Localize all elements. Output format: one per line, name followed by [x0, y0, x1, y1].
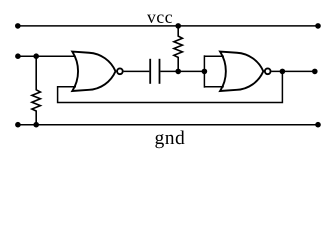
wire: U2 upper input stub — [204, 55, 223, 57]
vcc rail — [18, 25, 318, 27]
NOR gate U1 output bubble — [117, 68, 123, 74]
junction: input wire to R1 — [33, 53, 39, 59]
gnd label — [155, 130, 184, 148]
NOR gate U2 output bubble — [265, 68, 271, 74]
node: output right terminal — [312, 69, 318, 75]
NOR gate U2 body — [220, 52, 263, 91]
junction: R2 to vcc rail — [175, 23, 181, 29]
node: gnd right terminal — [315, 122, 321, 128]
wire: U2 lower input stub — [204, 86, 223, 88]
node: gnd left terminal — [15, 122, 21, 128]
node: vcc left terminal — [15, 23, 21, 29]
vcc label — [147, 14, 172, 22]
capacitor C1 right plate — [159, 59, 161, 84]
capacitor C1 left plate — [149, 59, 151, 84]
junction: U2 output to feedback — [280, 69, 286, 75]
wire: U1 output to capacitor C1 — [124, 70, 150, 72]
wire: input node to U1 upper input — [18, 55, 76, 57]
feedback wire: U2 output to U1 lower input — [58, 71, 283, 102]
junction: node A (C1, R2, U2 input) — [175, 69, 181, 75]
junction: bracket to node A wire — [202, 69, 208, 75]
wire: C1 to node A — [160, 70, 178, 72]
node: vcc right terminal — [315, 23, 321, 29]
resistor R1 — [32, 56, 41, 125]
wire: U2 output to right terminal — [271, 70, 314, 72]
wire: U2 input bracket vertical — [203, 55, 205, 87]
junction: R1 to gnd rail — [33, 122, 39, 128]
NOR gate U1 body — [72, 52, 115, 91]
gnd rail — [18, 124, 318, 126]
wire: node A to U2 input bracket — [178, 70, 204, 72]
resistor R2 — [174, 26, 183, 72]
node: input left terminal — [15, 53, 21, 59]
